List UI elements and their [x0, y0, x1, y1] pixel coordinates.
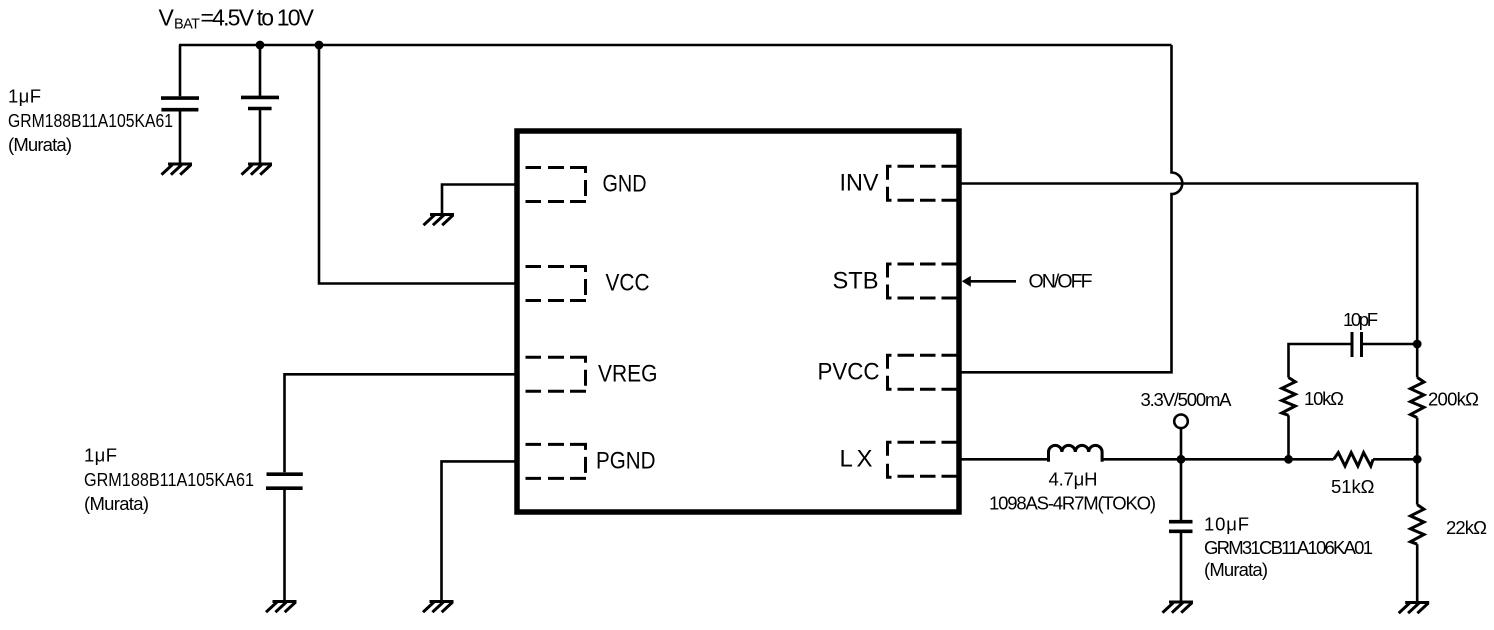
- svg-text:INV: INV: [840, 170, 879, 197]
- svg-text:LX: LX: [840, 446, 873, 473]
- svg-text:GRM31CB11A106KA01: GRM31CB11A106KA01: [1204, 537, 1373, 558]
- svg-text:51kΩ: 51kΩ: [1331, 476, 1375, 497]
- wire LX to inductor: [961, 458, 1049, 461]
- svg-text:1μF: 1μF: [84, 445, 117, 466]
- pin box INV: [888, 166, 958, 200]
- pin box LX: [888, 442, 958, 477]
- wire VBAT vertical to PVCC with hop over INV wire: [961, 45, 1182, 372]
- wire VCC branch: [319, 45, 515, 284]
- svg-text:BAT: BAT: [174, 17, 200, 33]
- ground below C3: [266, 602, 297, 613]
- svg-text:VREG: VREG: [598, 361, 658, 388]
- junction dot at 10k branch: [1284, 455, 1293, 464]
- label L1 value: [989, 469, 1156, 514]
- label C4 value: [1204, 514, 1373, 581]
- wire PGND pin: [442, 461, 515, 601]
- capacitor C1 1uF: [161, 45, 199, 164]
- wire INV to right column: [961, 184, 1417, 378]
- pin box VREG: [526, 357, 587, 391]
- junction dot at feedback node: [1413, 455, 1422, 464]
- resistor R2 200k: [1410, 377, 1424, 417]
- junction dot at C2: [256, 41, 265, 50]
- ground below C2: [242, 164, 273, 175]
- ground at GND pin: [424, 215, 455, 226]
- pin box GND: [526, 168, 587, 202]
- capacitor C4 10uF: [1169, 459, 1193, 602]
- label C1 value: [8, 85, 173, 154]
- wire 10k branch vertical: [1289, 344, 1418, 459]
- svg-text:3.3V/500mA: 3.3V/500mA: [1141, 389, 1233, 410]
- wire VREG pin: [285, 374, 515, 472]
- svg-text:200kΩ: 200kΩ: [1428, 389, 1479, 410]
- pin box VCC: [526, 267, 587, 301]
- svg-text:GRM188B11A105KA61: GRM188B11A105KA61: [84, 469, 254, 490]
- ground at PGND: [423, 602, 454, 613]
- terminal 3.3V output: [1174, 415, 1188, 460]
- pin box PGND: [526, 444, 587, 478]
- wire GND pin: [442, 185, 515, 215]
- svg-text:4.7μH: 4.7μH: [1049, 469, 1098, 490]
- resistor R1 10k: [1282, 378, 1296, 416]
- wire LX output rail: [1102, 458, 1417, 461]
- svg-text:10kΩ: 10kΩ: [1304, 388, 1344, 409]
- label C3 value: [84, 445, 254, 515]
- svg-text:10μF: 10μF: [1204, 514, 1249, 535]
- capacitor C5 10pF: [1352, 332, 1362, 357]
- svg-text:V: V: [159, 5, 175, 31]
- svg-text:ON/OFF: ON/OFF: [1029, 271, 1093, 293]
- wire 200k to 22k: [1416, 418, 1419, 505]
- ground below R4: [1399, 603, 1430, 614]
- wire VBAT top rail: [179, 44, 1172, 47]
- inductor L1 4.7uH: [1049, 445, 1103, 461]
- IC U1 body: [517, 131, 959, 512]
- capacitor C2 1uF: [241, 45, 279, 164]
- svg-text:GND: GND: [603, 171, 647, 198]
- svg-text:=4.5V to 10V: =4.5V to 10V: [201, 5, 315, 31]
- ground below C4: [1163, 602, 1194, 613]
- junction dot at 10pF right: [1413, 340, 1422, 349]
- svg-text:10pF: 10pF: [1343, 309, 1378, 330]
- junction dot at output: [1177, 455, 1186, 464]
- svg-text:PVCC: PVCC: [818, 359, 880, 386]
- wire 22k to ground: [1416, 544, 1419, 602]
- capacitor C3 1uF at VREG: [266, 474, 303, 601]
- node VBAT label: [159, 5, 315, 33]
- pin box STB: [888, 264, 958, 298]
- svg-text:22kΩ: 22kΩ: [1446, 517, 1487, 538]
- svg-text:GRM188B11A105KA61: GRM188B11A105KA61: [8, 110, 173, 131]
- svg-text:1098AS-4R7M(TOKO): 1098AS-4R7M(TOKO): [989, 493, 1156, 514]
- ground below C1: [162, 164, 193, 175]
- resistor R4 22k: [1410, 505, 1424, 545]
- svg-text:(Murata): (Murata): [1204, 559, 1268, 580]
- svg-text:VCC: VCC: [606, 270, 650, 297]
- svg-text:PGND: PGND: [596, 448, 656, 475]
- svg-text:(Murata): (Murata): [8, 134, 72, 155]
- svg-text:STB: STB: [833, 268, 879, 295]
- junction dot at VCC branch: [315, 41, 324, 50]
- resistor R3 51k: [1334, 453, 1373, 467]
- svg-text:(Murata): (Murata): [84, 493, 149, 514]
- svg-text:1μF: 1μF: [8, 85, 41, 106]
- arrow ON/OFF into STB: [962, 276, 1016, 287]
- pin box PVCC: [888, 355, 958, 389]
